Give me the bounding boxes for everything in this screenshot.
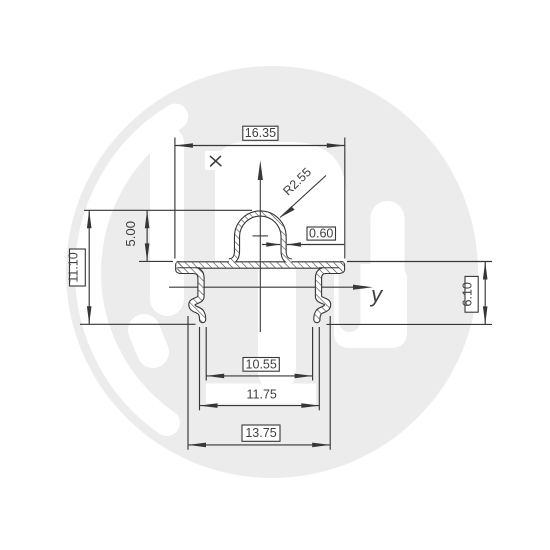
- svg-text:6.10: 6.10: [461, 282, 475, 306]
- svg-text:16.35: 16.35: [245, 126, 276, 140]
- svg-text:13.75: 13.75: [245, 426, 276, 440]
- svg-text:10.55: 10.55: [246, 357, 277, 371]
- svg-text:0.60: 0.60: [309, 227, 333, 241]
- svg-text:y: y: [369, 282, 384, 307]
- svg-text:11.75: 11.75: [247, 387, 277, 401]
- svg-text:11.10: 11.10: [66, 252, 80, 282]
- svg-text:5.00: 5.00: [123, 221, 138, 247]
